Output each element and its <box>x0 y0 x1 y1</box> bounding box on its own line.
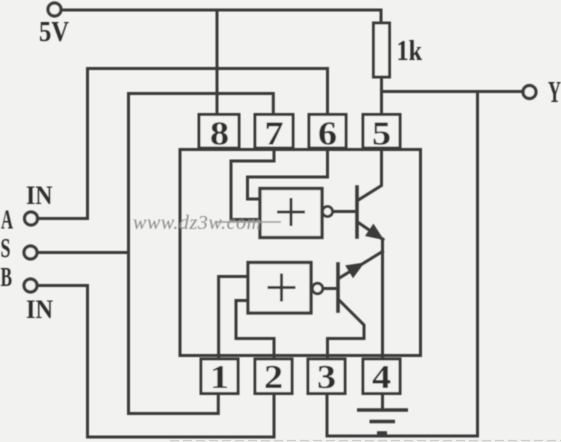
svg-text:1k: 1k <box>397 36 423 67</box>
svg-text:Y: Y <box>548 74 561 109</box>
svg-text:7: 7 <box>265 116 284 153</box>
svg-text:6: 6 <box>318 116 337 153</box>
svg-text:IN: IN <box>26 295 53 324</box>
svg-text:8: 8 <box>210 116 229 153</box>
svg-text:www.dz3w.com: www.dz3w.com <box>133 212 262 234</box>
svg-text:IN: IN <box>26 181 53 210</box>
svg-text:B: B <box>1 262 12 292</box>
svg-text:1: 1 <box>210 359 229 396</box>
svg-text:4: 4 <box>372 359 391 396</box>
svg-text:A: A <box>1 205 13 235</box>
svg-text:5V: 5V <box>39 17 69 48</box>
svg-text:5: 5 <box>372 116 391 153</box>
svg-text:2: 2 <box>264 359 283 396</box>
svg-text:S: S <box>1 233 11 263</box>
svg-text:3: 3 <box>317 359 336 396</box>
